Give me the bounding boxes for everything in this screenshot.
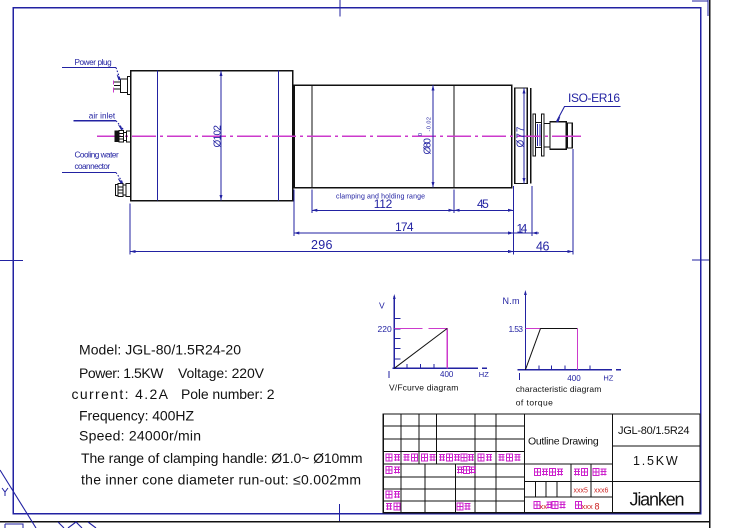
svg-text:JGL-80/1.5R24: JGL-80/1.5R24 (618, 425, 690, 437)
svg-text:xxx6: xxx6 (594, 488, 609, 495)
dim Ø102 line (220, 71, 222, 201)
DIMENSIONS (130, 71, 573, 255)
svg-text:400: 400 (567, 374, 581, 383)
svg-text:220: 220 (378, 324, 392, 334)
left section verticals lower (401, 464, 496, 513)
svg-text:46: 46 (536, 239, 550, 253)
svg-text:296: 296 (311, 238, 333, 252)
housing end-cap line right (blue) (278, 71, 280, 201)
svg-text:HZ: HZ (603, 374, 613, 383)
cooling water fitting neck (123, 185, 126, 195)
V/F X ticks (407, 364, 448, 368)
corner trim mark top-right (692, 0, 708, 16)
svg-text:Voltage: 220V: Voltage: 220V (178, 365, 265, 381)
motor body (rear housing) (131, 71, 293, 201)
dim Ø77 line (523, 88, 525, 184)
V/F curve: X axis (393, 367, 478, 369)
dim 174 (294, 232, 514, 234)
svg-text:Power plug: Power plug (75, 58, 113, 67)
centerline (axis) (97, 135, 581, 137)
power plug pin tips (magenta) (112, 81, 114, 93)
svg-text:coannector: coannector (75, 162, 111, 171)
nut end cap (568, 123, 573, 148)
svg-text:8: 8 (595, 502, 600, 512)
cjk 阶段标记 (535, 469, 541, 476)
SPEC TEXT (72, 342, 363, 488)
cjk 标记 (386, 454, 392, 461)
0 origin tick (519, 373, 521, 380)
svg-text:1.5KW: 1.5KW (633, 454, 680, 468)
spindle pulley right disc (541, 114, 544, 156)
power plug flange (128, 77, 131, 95)
svg-text:xxx: xxx (582, 502, 594, 511)
clamping range boundary line left (311, 85, 313, 188)
power plug pins (114, 82, 121, 89)
V/F Y ticks (394, 319, 400, 359)
leader air inlet (74, 120, 117, 122)
svg-text:-0.02: -0.02 (427, 117, 433, 132)
stray marks below paper edge (58, 522, 96, 528)
clamping range boundary line right (453, 85, 455, 188)
torque 400 vertical magenta (577, 328, 579, 369)
V/F 220 dashed level (magenta) (394, 327, 447, 329)
svg-text:Pole number: 2: Pole number: 2 (181, 386, 275, 402)
svg-text:Model: JGL-80/1.5R24-20: Model: JGL-80/1.5R24-20 (79, 342, 241, 358)
TITLE BLOCK TABLE (383, 414, 700, 513)
V/F ramp curve (black) (394, 328, 447, 368)
svg-text:air inlet: air inlet (89, 112, 116, 121)
svg-text:Power: 1.5KW: Power: 1.5KW (79, 365, 164, 381)
cjk 更改文件号 (439, 454, 445, 461)
svg-text:HZ: HZ (479, 370, 489, 379)
stray box below paper edge (5, 524, 23, 528)
svg-text:N.m: N.m (503, 296, 520, 306)
left section verticals upper (401, 414, 496, 464)
svg-text:Speed: 24000r/min: Speed: 24000r/min (79, 428, 201, 444)
cooling water fitting barrel (118, 184, 123, 197)
stray diagonal at bottom-left corner (0, 470, 36, 528)
cjk 工艺 (386, 503, 392, 510)
svg-text:400: 400 (440, 370, 454, 379)
ER16 collet nut (550, 122, 566, 149)
cooling water fitting threads (118, 187, 123, 193)
cjk 年月日 (499, 454, 505, 461)
shaft step (544, 124, 550, 148)
extension line flange left (513, 186, 515, 255)
arrow air inlet (119, 125, 124, 130)
air inlet fitting base (127, 131, 131, 142)
svg-text:V: V (379, 301, 385, 311)
svg-text:Cooling water: Cooling water (75, 151, 119, 160)
svg-text:1.53: 1.53 (509, 324, 524, 334)
dim 45 (454, 209, 514, 212)
svg-text:of torque: of torque (516, 397, 553, 407)
leader cooling water (62, 172, 116, 174)
dim Ø80 line (432, 85, 434, 188)
dim 112 (312, 209, 454, 211)
dim 46 (514, 251, 574, 253)
torque: Y axis (524, 292, 526, 371)
svg-text:Ø77: Ø77 (516, 126, 527, 147)
air inlet fitting neck (124, 132, 127, 140)
nose flange (Ø77) (515, 88, 528, 184)
stray Y glyph (2, 488, 8, 496)
svg-text:characteristic diagram: characteristic diagram (516, 384, 602, 394)
svg-text:174: 174 (395, 220, 414, 234)
svg-text:14: 14 (517, 221, 528, 235)
V/F 400Hz vertical (magenta) (446, 328, 448, 368)
right section horizontals (613, 446, 701, 481)
extension line flange right (531, 186, 533, 236)
middle section verticals (535, 464, 591, 497)
cjk 批准 (457, 503, 463, 510)
cjk 签名 (478, 454, 484, 461)
svg-text:Ø102: Ø102 (212, 125, 223, 148)
power plug body (121, 79, 128, 93)
leader ISO-ER16 (557, 107, 621, 122)
dim 14 (514, 232, 532, 234)
cooling water fitting base (126, 184, 131, 197)
svg-text:Jianken: Jianken (630, 490, 685, 510)
paper edge bottom (black) (0, 521, 710, 523)
svg-text:ISO-ER16: ISO-ER16 (568, 91, 620, 105)
extension line body1 left (129, 204, 131, 255)
svg-text:current: 4.2A: current: 4.2A (72, 386, 169, 402)
housing end-cap line left (blue) (157, 71, 159, 201)
table section dividers (525, 414, 613, 513)
svg-text:The range of clamping handle:: The range of clamping handle: Ø1.0~ Ø10m… (81, 450, 363, 466)
torque ramp black (525, 328, 540, 369)
svg-text:Ø80: Ø80 (422, 138, 433, 155)
svg-text:0: 0 (418, 133, 424, 136)
leader Power plug (62, 67, 116, 69)
nut cap line (567, 123, 569, 148)
cjk 设计 (386, 467, 392, 474)
front cylinder (Ø80 section) (294, 85, 511, 188)
air inlet fitting threads (119, 134, 124, 139)
extension line body2 left (293, 190, 295, 237)
svg-text:xx: xx (540, 502, 548, 511)
extension line clamping mid (453, 190, 455, 214)
cjk 分区 (422, 454, 428, 461)
torque X ticks (539, 366, 590, 370)
V/F curve: Y axis (393, 296, 395, 369)
air inlet fitting barrel (119, 130, 124, 142)
middle section horizontals (525, 464, 613, 497)
SPINDLE DRAWING (62, 58, 621, 201)
svg-text:Outline Drawing: Outline Drawing (528, 436, 599, 448)
dim 296 (130, 251, 514, 253)
GRAPHS (378, 290, 622, 407)
0 origin tick (388, 371, 390, 378)
bottom row mixed 共xx张第x张 账xxx日 (534, 502, 540, 509)
flange cap line (530, 88, 532, 184)
centering mark right (692, 259, 709, 261)
extension line nut end (572, 149, 574, 255)
arrow cooling water (118, 179, 123, 184)
svg-text:45: 45 (477, 197, 489, 211)
left section horizontals (383, 426, 524, 501)
svg-text:112: 112 (374, 197, 393, 211)
cjk 标准化 (457, 467, 463, 474)
pulley groove hatch (blue) (537, 124, 540, 146)
extension line clamping start (311, 190, 313, 214)
centering mark bottom (339, 504, 341, 522)
table outer border (383, 414, 700, 513)
svg-text:V/Fcurve diagram: V/Fcurve diagram (389, 383, 458, 393)
svg-text:xxx5: xxx5 (574, 488, 589, 495)
paper edge right (black) (709, 0, 711, 528)
arrow Power plug (117, 75, 121, 80)
svg-text:Frequency: 400HZ: Frequency: 400HZ (79, 408, 194, 424)
pulley groove middle (536, 123, 542, 148)
torque flat level black (541, 327, 578, 329)
torque 1.53 level magenta segment (525, 327, 540, 329)
cjk 审核 (386, 491, 392, 498)
cooling water fitting cap (115, 184, 118, 195)
arrow ISO-ER16 (557, 117, 561, 122)
torque: X axis (517, 369, 612, 371)
svg-text:the inner cone diameter run-ou: the inner cone diameter run-out: ≤0.002m… (81, 471, 361, 487)
cjk 重量 (574, 469, 580, 476)
spindle pulley left disc (533, 114, 536, 156)
cjk 比例 (593, 469, 599, 476)
centering mark left (0, 260, 23, 262)
air inlet fitting hex (filled) (115, 131, 119, 142)
cjk 处数 (404, 454, 410, 461)
centering mark top (339, 0, 341, 17)
